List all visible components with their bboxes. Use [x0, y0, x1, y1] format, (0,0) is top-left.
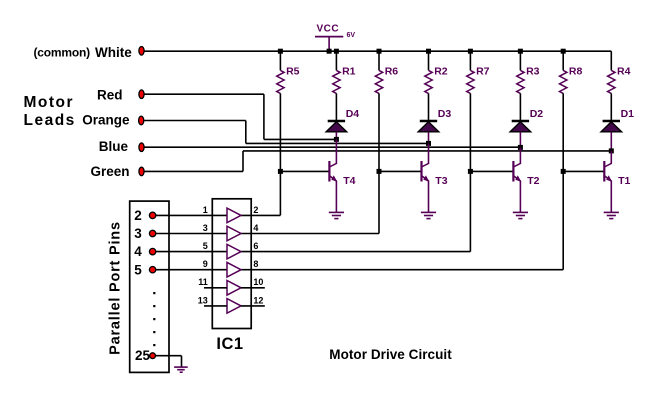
svg-text:9: 9: [203, 259, 208, 269]
svg-text:Blue: Blue: [99, 139, 129, 154]
svg-text:IC1: IC1: [216, 335, 243, 353]
svg-text:25: 25: [135, 348, 151, 363]
svg-text:3: 3: [203, 223, 208, 233]
svg-text:(common): (common): [34, 45, 91, 59]
svg-text:5: 5: [134, 262, 142, 277]
svg-text:R1: R1: [342, 66, 356, 78]
svg-text:R7: R7: [476, 66, 490, 78]
svg-text:Leads: Leads: [24, 112, 76, 129]
svg-text:8: 8: [253, 259, 258, 269]
svg-text:4: 4: [134, 244, 142, 259]
svg-text:13: 13: [198, 295, 208, 305]
svg-text:T3: T3: [435, 175, 447, 187]
svg-text:Motor Drive Circuit: Motor Drive Circuit: [329, 347, 452, 362]
svg-text:Parallel Port Pins: Parallel Port Pins: [108, 221, 124, 355]
svg-text:R8: R8: [569, 66, 583, 78]
svg-text:Motor: Motor: [24, 94, 75, 111]
svg-text:6V: 6V: [347, 32, 356, 39]
svg-text:R3: R3: [526, 66, 540, 78]
svg-text:T2: T2: [527, 175, 539, 187]
svg-text:White: White: [95, 45, 132, 60]
svg-text:T1: T1: [618, 175, 630, 187]
svg-text:2: 2: [134, 208, 142, 223]
svg-text:3: 3: [134, 226, 142, 241]
svg-text:5: 5: [203, 241, 208, 251]
svg-text:R5: R5: [286, 66, 300, 78]
svg-text:1: 1: [203, 205, 208, 215]
svg-text:R4: R4: [617, 66, 631, 78]
svg-text:D1: D1: [621, 108, 635, 120]
svg-text:6: 6: [253, 241, 258, 251]
svg-text:12: 12: [253, 295, 263, 305]
svg-text:Red: Red: [97, 88, 123, 103]
svg-text:R6: R6: [385, 66, 399, 78]
svg-text:R2: R2: [434, 66, 448, 78]
svg-text:T4: T4: [343, 175, 355, 187]
svg-text:D3: D3: [438, 108, 452, 120]
svg-text:4: 4: [253, 223, 258, 233]
svg-text:2: 2: [253, 205, 258, 215]
svg-text:Green: Green: [90, 164, 129, 179]
svg-text:VCC: VCC: [317, 24, 340, 35]
svg-text:D4: D4: [346, 108, 360, 120]
svg-text:Orange: Orange: [82, 113, 130, 128]
svg-text:D2: D2: [530, 108, 544, 120]
svg-text:10: 10: [253, 277, 263, 287]
svg-text:11: 11: [198, 277, 208, 287]
